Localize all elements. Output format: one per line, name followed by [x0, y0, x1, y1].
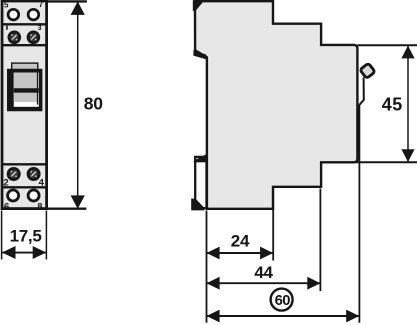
svg-text:17,5: 17,5	[10, 226, 42, 245]
screw terminal top-left	[8, 31, 22, 45]
dim 80 line	[77, 2, 79, 208]
extension line x=272.8 (24)	[272, 189, 274, 261]
knob on right side	[360, 63, 375, 78]
dim 60 right arrow	[346, 310, 359, 323]
dim 80 arrow up	[71, 1, 85, 15]
extension line x=359.4 (60)	[358, 105, 360, 323]
svg-text:8: 8	[37, 201, 42, 212]
dim 17,5 right arrow	[33, 246, 47, 259]
dim 80 arrow down	[71, 195, 85, 209]
dim 45 top extension	[357, 44, 417, 46]
dim 17,5 line	[2, 252, 47, 254]
dim 17,5 left arrow	[2, 246, 16, 259]
dim 44 right arrow	[307, 277, 320, 290]
dim 60 left arrow	[207, 310, 220, 323]
svg-text:2: 2	[3, 177, 8, 188]
dim 24 right arrow	[260, 247, 273, 260]
rocker interior white	[14, 73, 39, 107]
svg-text:45: 45	[382, 94, 403, 114]
svg-text:3: 3	[38, 25, 42, 32]
svg-text:24: 24	[231, 231, 250, 250]
dim 45 arrow down	[401, 149, 414, 162]
dim 17,5 right extension	[45, 211, 47, 260]
rocker lower gray pad	[14, 93, 37, 102]
side view body outline	[195, 1, 357, 209]
svg-text:6: 6	[4, 201, 9, 212]
DIN clip lower wedge	[194, 155, 208, 163]
dim 60 line	[206, 315, 359, 317]
svg-text:80: 80	[84, 94, 104, 114]
terminal hole 5	[8, 9, 19, 20]
dim 24 left arrow	[207, 247, 220, 260]
terminal hole 6	[8, 190, 19, 201]
dim 80 top extension line	[47, 0, 87, 2]
label 1 (tick)	[6, 26, 8, 30]
dim 44 line	[206, 282, 320, 284]
rocker middle bar	[14, 88, 39, 93]
svg-text:60: 60	[275, 293, 291, 309]
svg-text:5: 5	[4, 1, 9, 10]
knob leg line	[359, 78, 363, 105]
DIN clip upper wedge	[193, 50, 206, 59]
dim 45 arrow up	[401, 46, 414, 59]
extension line x=320.2 (44)	[319, 189, 321, 292]
front view section divider lines	[2, 23, 47, 25]
screw terminal bottom-left	[7, 167, 21, 181]
terminal hole 8	[28, 190, 39, 201]
rocker inner right line	[37, 73, 39, 105]
rocker upper gray pad	[14, 73, 37, 89]
svg-text:44: 44	[254, 263, 273, 282]
svg-text:4: 4	[39, 177, 45, 188]
dim 45 bottom extension / shelf line	[352, 161, 417, 163]
dim 45 line	[407, 46, 409, 162]
rocker switch frame	[7, 69, 42, 112]
DIN clip top hook	[193, 0, 205, 11]
rocker back plate	[12, 63, 38, 103]
DIN clip lower plate	[195, 157, 206, 208]
front view body outline	[2, 1, 47, 209]
terminal hole 7	[28, 9, 39, 20]
dim 17,5 left extension	[1, 211, 3, 260]
dim 44 left arrow	[207, 277, 220, 290]
dim 60 circle	[271, 289, 293, 311]
DIN clip foot wedge	[191, 198, 204, 210]
screw terminal bottom-right	[27, 167, 41, 181]
dim 24 line	[206, 252, 273, 254]
screw terminal top-right	[27, 31, 41, 45]
extension line left (back)	[206, 211, 208, 323]
dim 80 bottom extension line	[47, 207, 87, 209]
svg-text:7: 7	[39, 0, 44, 9]
